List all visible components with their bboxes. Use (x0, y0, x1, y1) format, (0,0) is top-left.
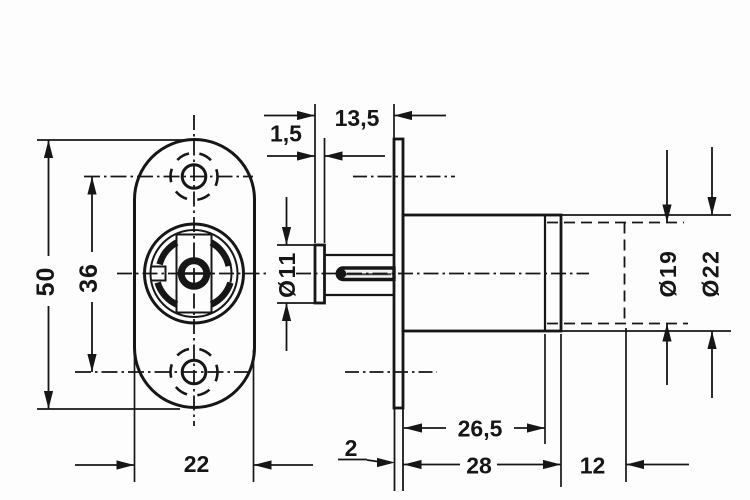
dim Ø11 extension top (277, 244, 316, 246)
bottom screw hole (182, 360, 206, 384)
dim 36 line (91, 177, 93, 253)
rotor cam column left edge (176, 235, 178, 313)
side view front cap (Ø11) (315, 245, 325, 303)
top hole centerline (84, 176, 253, 178)
cylinder outer circle (145, 224, 244, 323)
body top edge extension (561, 214, 731, 216)
rotor cam column right edge (211, 235, 213, 313)
rotor slot arc NW (160, 243, 177, 265)
horizontal centerline through cylinder front view (117, 273, 268, 275)
dim 12 right outside arrow (626, 464, 689, 466)
dim 28 line (404, 464, 461, 466)
front view plate outline (135, 140, 255, 408)
key slot bar mid line (346, 273, 391, 275)
vertical centerline front view (193, 115, 195, 426)
rear section hidden bottom edge (547, 323, 688, 325)
side view main centerline (296, 273, 589, 275)
svg-text:22: 22 (184, 451, 210, 477)
lock body (403, 215, 561, 331)
side view bottom hole centerline (345, 371, 437, 373)
dim 26,5 line (404, 427, 446, 429)
dim 1,5 arrows (267, 155, 315, 157)
rotor left notch (151, 267, 166, 281)
dim Ø11 extension bottom (277, 302, 316, 304)
dim Ø19 arrows (666, 150, 668, 223)
dim Ø22 arrows (711, 147, 713, 215)
key slot bar (337, 268, 394, 280)
key plug (181, 261, 207, 287)
rotor slot arc SW (158, 283, 177, 305)
side view plug housing bottom (325, 294, 395, 296)
bottom screw hole countersink dashed (171, 349, 218, 396)
svg-text:Ø19: Ø19 (655, 250, 681, 298)
dim 22 extension left (134, 348, 136, 482)
svg-text:50: 50 (32, 267, 60, 297)
top screw hole countersink dashed (171, 153, 218, 200)
dim 50 extension top (37, 139, 186, 141)
body bottom edge extension (561, 330, 731, 332)
body groove line (544, 215, 546, 331)
svg-text:1,5: 1,5 (270, 121, 302, 147)
svg-text:2: 2 (345, 435, 358, 461)
svg-text:Ø11: Ø11 (274, 251, 300, 298)
rear section hidden right edge (624, 223, 626, 324)
rear section hidden top edge (547, 222, 684, 224)
dim 13,5 arrows (264, 115, 315, 117)
svg-text:36: 36 (75, 263, 103, 293)
svg-text:13,5: 13,5 (335, 105, 380, 131)
dim 50 line (48, 140, 50, 256)
cylinder second circle (151, 230, 238, 317)
rotor slot arc SE (211, 283, 230, 305)
rotor slot arc NE (211, 243, 229, 267)
rotor cam column bottom cap (177, 312, 212, 314)
side view plate edges extended below (394, 408, 396, 491)
dim 22 arrows (75, 464, 135, 466)
dim 13,5 extension right (plate front above) (393, 104, 395, 138)
key slot bar dark tip (337, 269, 347, 278)
side view top hole centerline (353, 176, 455, 178)
svg-text:12: 12 (580, 453, 606, 479)
dim 1,5 extension left (314, 104, 316, 243)
svg-text:Ø22: Ø22 (698, 250, 724, 298)
dim 12 extension right (625, 328, 627, 482)
side view plug housing top (325, 254, 395, 256)
dim 2 leader (338, 459, 367, 461)
svg-text:26,5: 26,5 (458, 416, 503, 442)
bottom hole centerline (75, 371, 253, 373)
dim 1,5 extension right (324, 138, 326, 243)
dim Ø11 arrows (286, 197, 288, 245)
dim 22 extension right (253, 350, 255, 482)
rotor circle right segment (230, 264, 231, 282)
dim 50 extension bottom (37, 408, 180, 410)
svg-text:28: 28 (466, 453, 492, 479)
rotor cam column top cap (177, 234, 212, 236)
side view mounting plate (394, 139, 403, 408)
top screw hole (182, 165, 206, 189)
dim 26,5 extension right (544, 334, 546, 444)
dim 28/12 shared extension (560, 334, 562, 487)
key plug horizontal keyway (178, 272, 211, 275)
